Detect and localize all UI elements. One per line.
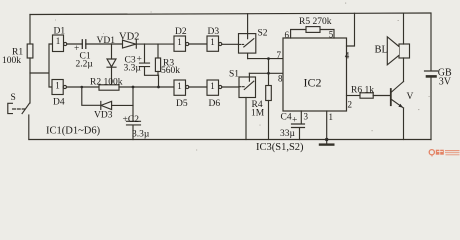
svg-text:D6: D6	[209, 99, 221, 109]
wire S1 top lead	[248, 73, 250, 77]
svg-text:S1: S1	[229, 70, 239, 80]
battery GB	[425, 14, 438, 140]
svg-text:+C2: +C2	[123, 115, 140, 125]
switch S1 box	[239, 77, 256, 98]
svg-text:1: 1	[177, 37, 182, 47]
wire top rail	[30, 13, 431, 15]
resistor R1	[27, 44, 33, 58]
scan speckles	[55, 3, 430, 151]
wire VD2 to D2	[136, 43, 174, 45]
wire R2 to D5	[119, 86, 174, 88]
svg-text:7: 7	[277, 50, 282, 60]
svg-text:IC3(S1,S2): IC3(S1,S2)	[256, 142, 304, 153]
svg-text:S: S	[11, 93, 16, 103]
svg-text:1M: 1M	[251, 109, 265, 119]
resistor R3	[157, 44, 159, 58]
svg-text:1: 1	[55, 81, 60, 91]
wire S1 bottom to rail	[245, 98, 247, 140]
IC2 box	[283, 38, 347, 111]
wire C1 to VD2	[86, 43, 123, 45]
capacitor C3 branch	[140, 44, 159, 75]
wire pin 2 to R6	[347, 95, 361, 97]
gate D3 box	[207, 36, 219, 51]
svg-text:D5: D5	[176, 99, 188, 109]
svg-text:1: 1	[210, 81, 215, 91]
svg-text:V: V	[407, 92, 414, 102]
wire S2 top to rail	[247, 14, 249, 34]
gate D2 box	[174, 36, 186, 51]
svg-text:1: 1	[56, 36, 61, 46]
svg-text:IC1(D1~D6): IC1(D1~D6)	[46, 126, 101, 137]
svg-text:3.3µ: 3.3µ	[124, 64, 142, 74]
wire pin 8 line	[249, 72, 283, 74]
svg-text:S2: S2	[258, 29, 268, 39]
wire bottom rail	[29, 139, 431, 141]
wire D4 out to R2	[67, 86, 100, 88]
svg-text:8: 8	[278, 74, 283, 84]
svg-text:3: 3	[304, 112, 309, 122]
wire D6 to S1	[222, 86, 239, 88]
wire D2 to D3	[189, 43, 207, 45]
wire pin 7 line	[248, 58, 283, 60]
gate D1 output circle	[64, 42, 67, 45]
svg-text:BL: BL	[375, 45, 388, 56]
switch S actuator bracket	[8, 103, 13, 113]
svg-text:R2 100k: R2 100k	[90, 78, 123, 88]
IC2 pin 1 stub	[326, 111, 328, 140]
diode VD1 vertical	[107, 44, 116, 85]
wire D1 to C1	[67, 43, 83, 45]
wire S2 bottom to pin7	[247, 53, 249, 59]
svg-text:D1: D1	[54, 27, 66, 37]
resistor R2	[99, 85, 119, 90]
svg-text:1: 1	[177, 81, 182, 91]
transistor V	[390, 89, 392, 105]
speaker BL	[399, 44, 410, 58]
diode VD2	[123, 40, 137, 48]
wire junction pin7-pin8	[268, 59, 270, 74]
transistor V emitter arrow	[398, 104, 403, 108]
svg-text:1: 1	[210, 37, 215, 47]
diode VD3 branch	[82, 87, 133, 110]
switch S2 box	[239, 34, 256, 54]
svg-text:VD2: VD2	[119, 32, 139, 43]
svg-text:560k: 560k	[161, 66, 180, 76]
junction dots	[81, 57, 329, 141]
wire junction branch to gates input	[30, 44, 53, 87]
svg-text:2.2µ: 2.2µ	[76, 60, 94, 70]
svg-text:6: 6	[285, 30, 290, 40]
gate D1 box	[53, 35, 64, 52]
switch S blade	[22, 58, 30, 114]
switch S bottom contact	[28, 115, 30, 140]
svg-text:33µ: 33µ	[280, 129, 296, 139]
svg-text:IC2: IC2	[304, 76, 322, 90]
svg-text:D2: D2	[175, 27, 187, 37]
svg-text:C4: C4	[281, 113, 292, 123]
svg-text:3.3µ: 3.3µ	[132, 130, 150, 140]
resistor R5	[291, 30, 334, 39]
ground	[326, 140, 328, 144]
svg-text:VD3: VD3	[94, 111, 113, 121]
svg-text:100k: 100k	[2, 56, 21, 66]
gate D6 box	[207, 80, 219, 95]
resistor R6	[360, 93, 373, 98]
wire D5 to D6	[189, 86, 207, 88]
wire left rail to R1	[29, 15, 31, 45]
svg-text:2: 2	[348, 100, 353, 110]
switch S dashed link	[13, 108, 25, 110]
svg-text:1: 1	[329, 112, 334, 122]
wire pin 4 to top rail	[347, 13, 355, 46]
wire D3 to S2	[222, 43, 239, 45]
svg-text:R6 1k: R6 1k	[351, 86, 374, 96]
gate D5 box	[174, 80, 186, 95]
svg-text:VD1: VD1	[97, 36, 116, 46]
capacitor C1 plates	[82, 40, 86, 49]
capacitor C2	[127, 87, 141, 140]
resistor R4	[268, 73, 270, 85]
watermark logo	[429, 150, 459, 157]
svg-text:+: +	[292, 116, 297, 126]
svg-text:D3: D3	[208, 27, 220, 37]
svg-text:4: 4	[345, 51, 350, 61]
svg-text:R5 270k: R5 270k	[299, 17, 332, 27]
svg-text:5: 5	[329, 30, 334, 40]
gate logic "1" glyphs	[55, 36, 215, 91]
IC2 pin 3 stub and C4	[292, 111, 305, 140]
svg-text:3V: 3V	[439, 77, 452, 88]
svg-text:D4: D4	[53, 98, 65, 108]
gate D4 box	[52, 80, 63, 95]
